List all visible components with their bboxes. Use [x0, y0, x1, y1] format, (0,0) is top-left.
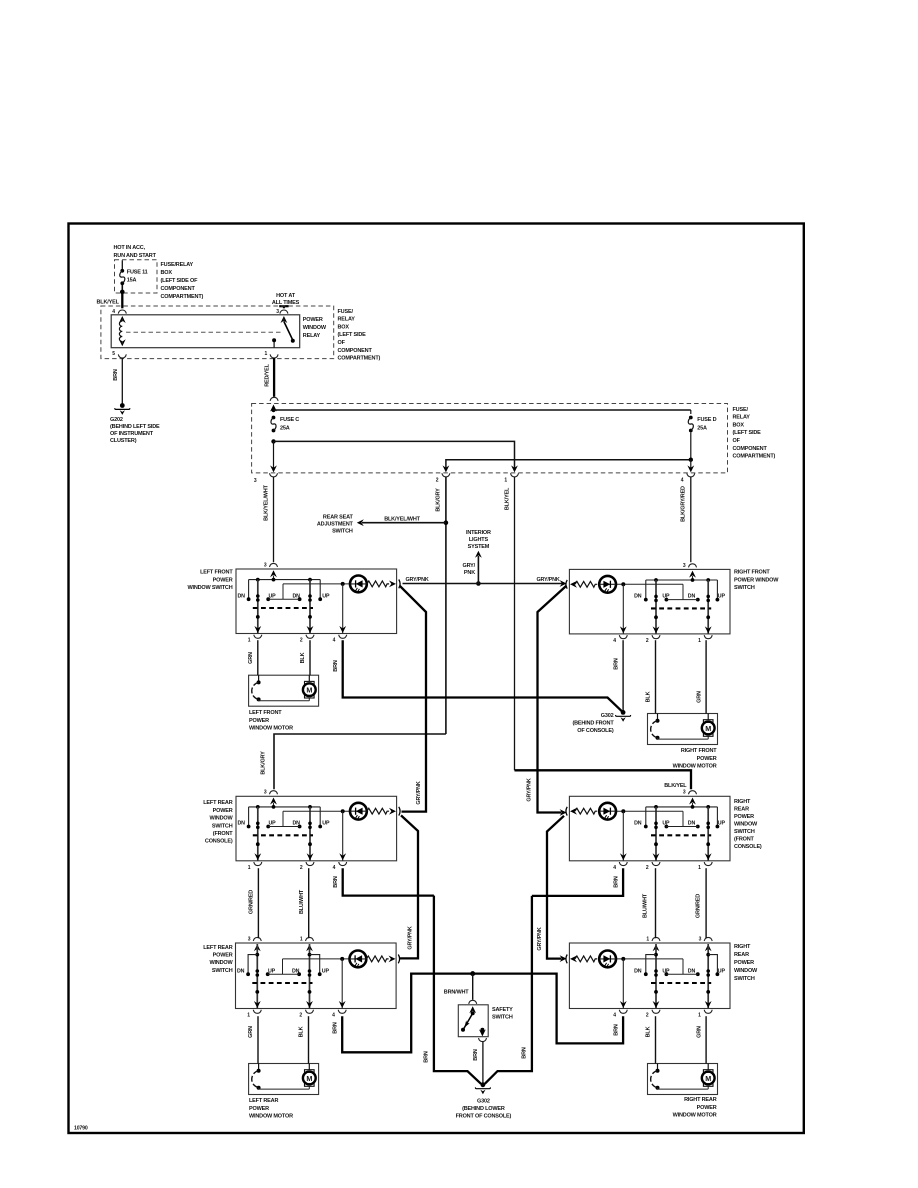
safety switch connector: [469, 1000, 477, 1004]
svg-text:DN: DN: [634, 821, 642, 827]
svg-text:COMPONENT: COMPONENT: [338, 348, 373, 354]
svg-text:UP: UP: [269, 821, 277, 827]
svg-text:SWITCH: SWITCH: [734, 976, 755, 982]
wire to rear seat adjustment switch: [362, 522, 446, 524]
svg-text:BLK: BLK: [300, 652, 306, 663]
svg-text:REAR: REAR: [734, 807, 749, 813]
wire GRN LRD pin1 to motor: [257, 1016, 259, 1063]
ground G202: [120, 403, 125, 408]
svg-text:1: 1: [247, 1013, 250, 1019]
svg-text:RIGHT: RIGHT: [734, 799, 751, 805]
svg-text:25A: 25A: [697, 425, 707, 431]
svg-text:GRY/PNK: GRY/PNK: [536, 577, 559, 583]
svg-text:POWER: POWER: [249, 718, 269, 724]
svg-text:ADJUSTMENT: ADJUSTMENT: [317, 521, 354, 527]
svg-text:WINDOW: WINDOW: [209, 960, 233, 966]
wire bus A inside fuse box: [274, 409, 691, 411]
svg-text:GRY/: GRY/: [462, 563, 475, 569]
wire GRY/PNK LF switch to LR console switch: [400, 586, 427, 812]
wire GRY/PNK RF switch to RR console switch: [538, 586, 567, 813]
wire GRY/PNK LR console to LR door switch: [400, 815, 419, 958]
svg-text:GRY/PNK: GRY/PNK: [416, 781, 422, 804]
svg-text:FUSE C: FUSE C: [280, 417, 299, 423]
node GRY/PNK tap: [476, 581, 481, 586]
svg-text:(BEHIND LEFT SIDE: (BEHIND LEFT SIDE: [110, 424, 160, 430]
svg-text:UP: UP: [662, 821, 670, 827]
relay switch: [281, 316, 288, 323]
svg-text:BLU/WHT: BLU/WHT: [643, 893, 649, 918]
switch S4 right rear power window switch (front console): [566, 790, 730, 871]
svg-text:BLK/GRY/RED: BLK/GRY/RED: [681, 486, 687, 522]
svg-text:OF: OF: [338, 340, 346, 346]
svg-text:BLK/GRY: BLK/GRY: [436, 488, 442, 512]
svg-text:2: 2: [300, 865, 303, 871]
svg-text:DN: DN: [688, 594, 696, 600]
fuse C: [272, 416, 276, 420]
svg-text:REAR: REAR: [734, 952, 749, 958]
svg-text:BOX: BOX: [161, 270, 173, 276]
svg-text:SWITCH: SWITCH: [492, 1015, 513, 1021]
svg-text:OF INSTRUMENT: OF INSTRUMENT: [110, 431, 154, 437]
wire BRN left trunk to G302: [434, 896, 481, 1084]
svg-text:2: 2: [646, 1013, 649, 1019]
wire GRN/RED LRC pin1 to LRD: [257, 868, 259, 938]
relay pin 1 connector: [270, 354, 278, 358]
svg-text:BLK: BLK: [646, 691, 652, 702]
svg-text:3: 3: [264, 790, 267, 796]
wire BLK/YEL fuse11 to relay pin4: [121, 292, 123, 308]
wire BRN right trunk to G302: [485, 896, 532, 1084]
svg-text:BRN: BRN: [613, 876, 619, 888]
svg-text:POWER WINDOW: POWER WINDOW: [734, 577, 779, 583]
svg-text:BLK/GRY: BLK/GRY: [260, 751, 266, 775]
wire BLK LRD pin2 to motor: [308, 1016, 310, 1063]
svg-text:2: 2: [299, 1013, 302, 1019]
svg-text:BRN: BRN: [613, 1024, 619, 1036]
wire BLK/GRY fusebox pin2 down: [445, 477, 447, 734]
fuse/relay box (relay) dashed outline: [101, 306, 334, 359]
svg-text:UP: UP: [268, 968, 276, 974]
svg-text:DN: DN: [634, 594, 642, 600]
svg-text:BOX: BOX: [338, 324, 350, 330]
svg-text:DN: DN: [688, 968, 696, 974]
svg-text:(LEFT SIDE: (LEFT SIDE: [733, 430, 762, 436]
fusebox pin 2 connector: [442, 473, 450, 477]
svg-text:PNK: PNK: [464, 570, 475, 576]
svg-text:POWER: POWER: [213, 808, 233, 814]
svg-text:4: 4: [333, 865, 336, 871]
svg-text:BRN: BRN: [333, 876, 339, 888]
svg-text:4: 4: [112, 309, 115, 315]
svg-text:BRN: BRN: [424, 1051, 430, 1063]
wire BRN LRC pin4 to trunk: [343, 868, 434, 895]
svg-text:BRN: BRN: [522, 1047, 528, 1059]
svg-text:BLK/YEL: BLK/YEL: [97, 300, 120, 306]
svg-text:BLK/YEL/WHT: BLK/YEL/WHT: [384, 517, 420, 523]
svg-text:HOT IN ACC,: HOT IN ACC,: [114, 245, 146, 251]
svg-text:LEFT REAR: LEFT REAR: [249, 1098, 278, 1104]
svg-text:1: 1: [646, 936, 649, 942]
relay pin 5 connector: [118, 354, 126, 358]
svg-text:GRY/PNK: GRY/PNK: [527, 778, 533, 801]
node BLK/YEL/WHT tap: [444, 520, 449, 525]
svg-text:SAFETY: SAFETY: [492, 1007, 513, 1013]
svg-text:2: 2: [436, 478, 439, 484]
svg-text:GRY/PNK: GRY/PNK: [408, 926, 414, 949]
svg-text:WINDOW: WINDOW: [303, 325, 327, 331]
svg-text:COMPONENT: COMPONENT: [161, 286, 196, 292]
safety switch bottom connector: [479, 1038, 487, 1042]
power window relay box: [111, 315, 300, 348]
wire bus B inside fuse box: [274, 441, 515, 470]
switch S3 left rear power window switch (front console): [236, 790, 400, 871]
svg-text:RIGHT REAR: RIGHT REAR: [684, 1097, 717, 1103]
svg-text:10790: 10790: [74, 1126, 88, 1132]
wire fuse C to pin 3: [273, 441, 275, 470]
svg-text:POWER: POWER: [734, 960, 754, 966]
wire GRN/RED RRC pin1 to RRD: [705, 868, 707, 938]
wire BLK/YEL fusebox pin1 down: [514, 477, 516, 771]
wire RED/YEL relay pin1 to fuse box: [273, 358, 275, 397]
svg-text:(BEHIND LOWER: (BEHIND LOWER: [462, 1106, 505, 1112]
svg-text:BOX: BOX: [733, 422, 745, 428]
fuse F11: [120, 269, 124, 273]
svg-text:(LEFT SIDE: (LEFT SIDE: [338, 332, 367, 338]
fuse D: [690, 410, 692, 414]
svg-text:GRN/RED: GRN/RED: [249, 890, 255, 914]
svg-text:3: 3: [699, 936, 702, 942]
svg-text:BRN: BRN: [332, 1022, 338, 1034]
wire GRY/PNK RR console to RR door switch: [547, 816, 564, 959]
relay pin 4 connector: [118, 310, 126, 314]
svg-text:UP: UP: [718, 821, 726, 827]
svg-text:RELAY: RELAY: [733, 415, 751, 421]
svg-text:POWER: POWER: [303, 317, 323, 323]
svg-text:SWITCH: SWITCH: [212, 823, 233, 829]
svg-text:UP: UP: [322, 821, 330, 827]
fuse/relay box (fuse C,D) dashed outline: [252, 404, 728, 473]
svg-text:CLUSTER): CLUSTER): [110, 438, 137, 444]
svg-text:BRN: BRN: [613, 658, 619, 670]
svg-text:DN: DN: [238, 821, 246, 827]
svg-text:UP: UP: [718, 968, 726, 974]
connector RED/YEL to fuse box: [270, 397, 278, 401]
svg-text:BLK: BLK: [646, 1026, 652, 1037]
svg-text:M: M: [306, 686, 312, 695]
svg-text:GRY/PNK: GRY/PNK: [405, 577, 428, 583]
svg-text:UP: UP: [322, 968, 330, 974]
switch S6 right rear power window switch: [566, 936, 730, 1018]
svg-text:GRY/PNK: GRY/PNK: [537, 927, 543, 950]
svg-text:BRN: BRN: [113, 369, 119, 381]
ground G302 rear: [481, 1082, 486, 1087]
wire BLK LF pin2 to motor: [309, 640, 311, 675]
svg-text:DN: DN: [688, 821, 696, 827]
svg-text:(FRONT: (FRONT: [213, 831, 234, 837]
svg-text:3: 3: [248, 936, 251, 942]
svg-text:POWER: POWER: [213, 577, 233, 583]
switch S5 left rear power window switch: [236, 936, 400, 1018]
svg-text:BRN: BRN: [333, 660, 339, 672]
svg-text:(LEFT SIDE OF: (LEFT SIDE OF: [161, 278, 199, 284]
svg-text:RED/YEL: RED/YEL: [264, 363, 270, 386]
svg-text:1: 1: [248, 638, 251, 644]
svg-text:UP: UP: [662, 594, 670, 600]
node fuse D bottom: [689, 458, 693, 462]
svg-text:DN: DN: [237, 968, 245, 974]
svg-text:BLK/YEL: BLK/YEL: [504, 487, 510, 510]
svg-text:WINDOW: WINDOW: [734, 822, 758, 828]
svg-text:COMPARTMENT): COMPARTMENT): [338, 356, 381, 362]
svg-text:FUSE/RELAY: FUSE/RELAY: [161, 262, 194, 268]
svg-text:WINDOW MOTOR: WINDOW MOTOR: [673, 763, 717, 769]
svg-text:2: 2: [646, 865, 649, 871]
svg-text:3: 3: [264, 562, 267, 568]
svg-text:BLU/WHT: BLU/WHT: [299, 889, 305, 914]
wire fuse11 top: [121, 260, 123, 269]
svg-text:WINDOW MOTOR: WINDOW MOTOR: [673, 1112, 717, 1118]
svg-text:1: 1: [698, 638, 701, 644]
svg-text:SWITCH: SWITCH: [734, 585, 755, 591]
wire BLK/GRY to left rear console switch: [274, 734, 446, 789]
svg-text:4: 4: [613, 638, 616, 644]
svg-text:POWER: POWER: [213, 953, 233, 959]
svg-text:UP: UP: [662, 968, 670, 974]
wire BRN LRD pin4 to safety node: [342, 974, 471, 1053]
svg-text:RIGHT FRONT: RIGHT FRONT: [734, 570, 770, 576]
svg-text:FRONT OF CONSOLE): FRONT OF CONSOLE): [456, 1113, 512, 1119]
svg-text:25A: 25A: [280, 425, 290, 431]
wire fuse11 to node: [121, 285, 123, 292]
wire to interior lights system: [477, 556, 479, 584]
svg-text:POWER: POWER: [734, 814, 754, 820]
wire BLU/WHT LRC pin2 to LRD: [308, 868, 310, 938]
wire BLU/WHT RRC pin2 to RRD: [655, 868, 657, 938]
wire BRN/WHT to safety switch: [472, 974, 474, 1000]
svg-text:WINDOW: WINDOW: [209, 816, 233, 822]
arrow pin2 exit: [443, 465, 450, 472]
svg-text:RIGHT FRONT: RIGHT FRONT: [681, 748, 717, 754]
svg-text:COMPARTMENT): COMPARTMENT): [161, 294, 204, 300]
node BRN junction: [470, 971, 475, 976]
arrow pin1 exit: [511, 465, 518, 472]
svg-text:WINDOW MOTOR: WINDOW MOTOR: [249, 725, 293, 731]
svg-text:CONSOLE): CONSOLE): [205, 839, 233, 845]
safety switch box: [458, 1005, 488, 1037]
node fuse C bottom: [271, 439, 275, 443]
relay internal dashed link: [126, 331, 281, 333]
svg-text:M: M: [705, 724, 711, 733]
svg-text:SWITCH: SWITCH: [734, 829, 755, 835]
svg-text:4: 4: [613, 865, 616, 871]
svg-text:GRN: GRN: [696, 691, 702, 703]
switch S2 right front power window switch: [566, 563, 730, 644]
svg-text:4: 4: [332, 1013, 335, 1019]
svg-text:LIGHTS: LIGHTS: [469, 537, 489, 543]
svg-text:BLK: BLK: [299, 1026, 305, 1037]
wire BLK RRD pin2 to motor: [655, 1016, 657, 1063]
relay coil: [119, 316, 126, 323]
svg-text:UP: UP: [718, 594, 726, 600]
svg-text:UP: UP: [322, 593, 330, 599]
wire BRN relay pin5 to G202: [121, 358, 123, 404]
safety switch blade: [469, 1006, 476, 1013]
svg-text:INTERIOR: INTERIOR: [466, 530, 491, 536]
fusebox entry arrow: [270, 405, 277, 412]
wire BLK RF pin2 to motor: [655, 640, 657, 713]
svg-text:LEFT FRONT: LEFT FRONT: [249, 710, 282, 716]
node fuse11 output: [120, 290, 125, 295]
wire BRN RRC pin4 to trunk: [532, 868, 623, 896]
svg-text:FUSE 11: FUSE 11: [127, 270, 148, 276]
svg-text:2: 2: [646, 638, 649, 644]
svg-text:3: 3: [683, 790, 686, 796]
wire GRN LF pin1 to motor: [257, 640, 259, 675]
fuse/relay box (fuse 11) dashed outline: [115, 260, 158, 293]
svg-text:(BEHIND FRONT: (BEHIND FRONT: [572, 720, 614, 726]
svg-text:COMPARTMENT): COMPARTMENT): [733, 454, 776, 460]
svg-text:FUSE/: FUSE/: [733, 407, 749, 413]
fusebox pin 1 connector: [511, 473, 519, 477]
svg-text:POWER: POWER: [697, 756, 717, 762]
motor M2 right front power window motor: [648, 714, 718, 745]
svg-text:LEFT REAR: LEFT REAR: [203, 945, 232, 951]
svg-text:15A: 15A: [127, 277, 137, 283]
svg-text:RUN AND START: RUN AND START: [114, 253, 157, 259]
svg-text:4: 4: [333, 638, 336, 644]
svg-text:2: 2: [300, 638, 303, 644]
node fuse C top: [271, 408, 275, 412]
wire GRN RRD pin1 to motor: [705, 1016, 707, 1063]
svg-text:DN: DN: [292, 968, 300, 974]
svg-text:REAR SEAT: REAR SEAT: [323, 514, 354, 520]
svg-text:3: 3: [276, 309, 279, 315]
svg-text:DN: DN: [293, 593, 301, 599]
svg-text:BRN/WHT: BRN/WHT: [444, 990, 470, 996]
fusebox pin 3 connector: [270, 473, 278, 477]
wire BLK/YEL to right rear console switch: [515, 770, 692, 789]
svg-text:LEFT REAR: LEFT REAR: [203, 800, 232, 806]
svg-text:LEFT FRONT: LEFT FRONT: [200, 570, 233, 576]
svg-text:BLK/YEL: BLK/YEL: [664, 783, 687, 789]
svg-text:G302: G302: [601, 713, 614, 719]
wire bus C inside fuse box: [446, 460, 691, 471]
svg-text:1: 1: [300, 936, 303, 942]
svg-text:DN: DN: [634, 968, 642, 974]
wire fuse D to pin 4: [690, 460, 692, 471]
wire BRN safety switch to G302: [482, 1041, 484, 1084]
svg-text:1: 1: [504, 478, 507, 484]
svg-text:DN: DN: [293, 821, 301, 827]
svg-text:GRN: GRN: [248, 652, 254, 664]
svg-text:M: M: [705, 1074, 711, 1083]
svg-text:OF: OF: [733, 438, 741, 444]
wire GRN RF pin1 to motor: [705, 640, 707, 713]
svg-text:DN: DN: [238, 593, 246, 599]
wire GRY/PNK node to RF: [478, 583, 563, 585]
svg-text:1: 1: [698, 865, 701, 871]
motor M1 left front power window motor: [249, 675, 319, 706]
motor M3 left rear power window motor: [249, 1064, 319, 1095]
svg-text:3: 3: [254, 478, 257, 484]
switch S1 left front power window switch: [236, 562, 400, 643]
svg-text:4: 4: [681, 478, 684, 484]
svg-text:SWITCH: SWITCH: [332, 528, 353, 534]
wire BLK/YEL/WHT fusebox pin3 to LF switch: [273, 477, 275, 563]
svg-text:FUSE D: FUSE D: [697, 417, 716, 423]
ground G302 front: [621, 710, 626, 715]
svg-text:G202: G202: [110, 417, 123, 423]
fusebox pin 4 connector: [687, 473, 695, 477]
wire GRY/PNK LF to node: [403, 583, 479, 585]
svg-text:GRN/RED: GRN/RED: [695, 894, 701, 918]
svg-text:COMPONENT: COMPONENT: [733, 446, 768, 452]
svg-text:GRN: GRN: [248, 1026, 254, 1038]
svg-text:1: 1: [264, 351, 267, 357]
svg-text:RELAY: RELAY: [338, 317, 356, 323]
svg-text:3: 3: [683, 563, 686, 569]
svg-text:WINDOW MOTOR: WINDOW MOTOR: [249, 1113, 293, 1119]
svg-text:4: 4: [613, 1013, 616, 1019]
svg-text:POWER: POWER: [697, 1105, 717, 1111]
svg-text:RELAY: RELAY: [303, 333, 321, 339]
wire BRN RF pin4 to G302: [622, 640, 624, 712]
svg-text:WINDOW SWITCH: WINDOW SWITCH: [187, 585, 232, 591]
motor M4 right rear power window motor: [648, 1064, 718, 1095]
relay pin 3 connector: [280, 310, 288, 314]
svg-text:HOT AT: HOT AT: [276, 293, 296, 299]
svg-text:POWER: POWER: [249, 1106, 269, 1112]
svg-text:5: 5: [112, 351, 115, 357]
wire hot-at-all-times tap: [279, 305, 288, 307]
svg-text:WINDOW: WINDOW: [734, 968, 758, 974]
svg-text:1: 1: [698, 1013, 701, 1019]
svg-text:UP: UP: [269, 593, 277, 599]
svg-text:CONSOLE): CONSOLE): [734, 844, 762, 850]
svg-text:RIGHT: RIGHT: [734, 944, 751, 950]
svg-text:BRN: BRN: [473, 1049, 479, 1061]
svg-text:BLK/YEL/WHT: BLK/YEL/WHT: [263, 484, 269, 520]
svg-text:(FRONT: (FRONT: [734, 837, 755, 843]
svg-text:SYSTEM: SYSTEM: [468, 544, 490, 550]
wire BRN LF pin4 to G302: [343, 640, 622, 711]
svg-text:SWITCH: SWITCH: [212, 968, 233, 974]
wire BLK/GRY/RED fusebox pin4 to RF switch: [690, 477, 692, 563]
svg-text:GRN: GRN: [696, 1026, 702, 1038]
svg-text:OF CONSOLE): OF CONSOLE): [577, 728, 614, 734]
svg-text:1: 1: [248, 865, 251, 871]
svg-text:M: M: [306, 1074, 312, 1083]
svg-text:FUSE/: FUSE/: [338, 309, 354, 315]
wire BRN RRD pin4 to safety node: [474, 974, 623, 1044]
svg-text:G302: G302: [477, 1098, 490, 1104]
